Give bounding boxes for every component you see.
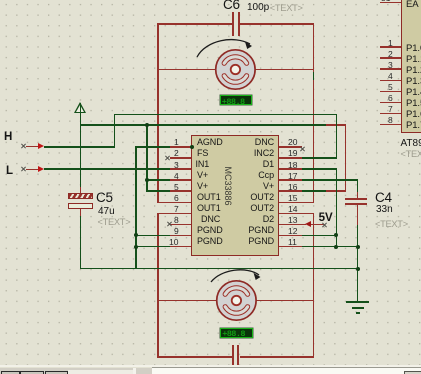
- bottom window UI strip: [0, 365, 421, 367]
- pin number 4: [174, 172, 179, 181]
- pin name V+ (5): [197, 182, 208, 191]
- node L: input terminal: [21, 167, 26, 172]
- U2 pin 8 stub (P1.7): [380, 124, 401, 126]
- U2 pin number 2: [388, 50, 393, 59]
- pin name PGND (10): [197, 237, 223, 246]
- pin name OUT2 (14): [248, 204, 274, 213]
- U2 pin number 7: [388, 105, 393, 114]
- pin number 3: [174, 161, 179, 170]
- wire: pin 17 Ccp: [302, 179, 358, 181]
- U2 pin number 31 (clipped): [381, 0, 390, 3]
- U1 pin 4 stub: [170, 179, 192, 181]
- U2 pin 7 stub (P1.6): [380, 113, 401, 115]
- wire: bottom loop bottom edge, right of C7: [240, 356, 314, 358]
- pin-end cross pin 8: [167, 221, 172, 226]
- value 33n: [376, 205, 393, 215]
- U1 pin 16 stub: [279, 190, 302, 192]
- U1 pin 19 stub: [279, 157, 302, 159]
- wire: H upper rail to pin 19 column: [114, 114, 338, 116]
- ground symbol: [346, 301, 369, 303]
- wire: into pin 19 INC2: [302, 157, 337, 159]
- motor M1: [193, 27, 278, 112]
- U2 pin number 6: [388, 94, 393, 103]
- wire: V+ branch to pin 5: [146, 190, 170, 192]
- wire: V+ branch to pin 4: [146, 179, 170, 181]
- wire: pin 15 OUT2 connection: [279, 202, 314, 204]
- U2 pin name P1.0: [406, 44, 421, 54]
- pin number 16: [288, 183, 297, 192]
- U2 pin 2 stub (P1.1): [380, 57, 401, 59]
- wire: H terminal to corner: [44, 146, 114, 148]
- wire: top motor loop top edge, left of C6: [157, 23, 232, 25]
- junction: pin 11 / C4 column: [356, 245, 360, 249]
- label C4: [375, 191, 392, 205]
- node H: input terminal: [21, 144, 26, 149]
- pin name D2: [254, 215, 274, 224]
- text placeholder C4: [375, 220, 408, 229]
- pin number 5: [174, 183, 179, 192]
- power terminal arrow (top left): [74, 102, 86, 113]
- pin name V+ (4): [197, 171, 208, 180]
- pin name D1: [254, 160, 274, 169]
- wire: motor M2 left terminal: [157, 300, 216, 302]
- capacitor C4: [357, 192, 359, 199]
- wire: pin 14 OUT2 connection: [279, 213, 314, 215]
- wire: motor M2 right terminal: [255, 300, 314, 302]
- U1 pin 2 stub: [170, 157, 192, 159]
- wire: +V rail red segment to pin16 column: [326, 124, 347, 126]
- U1 pin 20 stub: [279, 146, 302, 148]
- label L: [6, 166, 13, 178]
- wire: pin 19 column vertical: [336, 114, 338, 159]
- value 100p: [247, 3, 269, 13]
- wire: pin 6 OUT1 connection: [157, 202, 192, 204]
- pin name OUT2 (15): [248, 193, 274, 202]
- pin number 17: [288, 172, 297, 181]
- wire: pin 11 PGND to C4 column: [302, 246, 358, 248]
- wire: +V rail horizontal: [80, 124, 326, 126]
- wire: ground rail horizontal: [80, 268, 358, 270]
- label 5V: [319, 213, 333, 225]
- wire: V+ branch vertical: [146, 124, 148, 192]
- U1 pin 9 stub: [170, 235, 192, 237]
- U1 pin 1 stub: [170, 146, 192, 148]
- wire: pin 18 D1: [302, 168, 337, 170]
- label H: [4, 132, 12, 144]
- U2 pin number 4: [388, 72, 393, 81]
- wire: red vertical down to pin 16 row: [345, 124, 347, 192]
- pin name FS: [197, 149, 208, 158]
- pin name INC2: [250, 149, 274, 158]
- wire: Ccp down to C4: [357, 179, 359, 192]
- pin number 6: [174, 194, 179, 203]
- pin number 10: [169, 238, 178, 247]
- pin name IN1: [196, 160, 210, 169]
- pin number 11: [288, 238, 297, 247]
- U2 part label AT89C51: [401, 139, 421, 149]
- capacitor C7 (in bottom loop): [232, 345, 234, 368]
- pin number 1: [174, 138, 179, 147]
- wire: ground column vertical: [135, 146, 137, 269]
- wire: H vertical riser: [114, 114, 116, 148]
- U2 pin 3 stub (P1.2): [380, 68, 401, 70]
- junction: ground column pin 10: [134, 245, 138, 249]
- junction: pin 1 at chip edge: [190, 145, 194, 149]
- U2 text placeholder: [401, 150, 421, 159]
- pin name Ccp: [254, 171, 274, 180]
- U2 pin EA stub (pin 31): [380, 2, 401, 4]
- U2 pin 4 stub (P1.3): [380, 80, 401, 82]
- label C5: [96, 191, 113, 205]
- wire: bottom motor loop left edge (from pin 7): [157, 213, 159, 357]
- U1 pin 12 stub: [279, 235, 302, 237]
- text placeholder C5: [98, 218, 131, 227]
- U2 pin name P1.5: [406, 99, 421, 109]
- wire: pin 16 V+ red segment: [326, 190, 347, 192]
- U2 pin name P1.6: [406, 110, 421, 120]
- junction: D1 column pin 11: [334, 245, 338, 249]
- IC U1 vertical part name MC33886: [227, 185, 229, 187]
- U1 pin 13 stub: [279, 224, 302, 226]
- U1 pin 3 stub: [170, 168, 192, 170]
- pin name OUT1 (7): [197, 204, 221, 213]
- U2 pin number 5: [388, 83, 393, 92]
- U1 pin 11 stub: [279, 246, 302, 248]
- capacitor C5 (polarized): [80, 187, 82, 194]
- U2 pin 5 stub (P1.4): [380, 91, 401, 93]
- wire: ground column top corner to pin 1: [135, 146, 170, 148]
- junction: +V rail / V+ branch: [145, 123, 149, 127]
- wire: power terminal stem down to C5: [80, 103, 82, 187]
- pin-end cross pin 20: [300, 147, 305, 152]
- pin number 13: [288, 216, 297, 225]
- junction: D1 column pin 12: [334, 233, 338, 237]
- wire: L terminal to pin 3 IN1: [44, 168, 170, 170]
- wire: motor M1 left terminal: [157, 69, 216, 71]
- wire: pin 12 PGND: [302, 235, 337, 237]
- pin name PGND (9): [197, 226, 223, 235]
- U1 pin 18 stub: [279, 168, 302, 170]
- wire: C4 down to pin11 row and ground: [357, 225, 359, 302]
- label C6: [223, 0, 240, 11]
- wire: C5 down to ground rail: [80, 216, 82, 270]
- U2 pin number 8: [388, 116, 393, 125]
- pin number 15: [288, 194, 297, 203]
- motor M1 rotation arrow: [190, 30, 260, 62]
- wire: top motor loop right edge (to pin 15): [313, 23, 315, 203]
- junction: ground column pin 9: [134, 233, 138, 237]
- wire: ground column to pin 9: [135, 235, 170, 237]
- wire: bottom loop bottom edge, left of C7: [157, 356, 232, 358]
- junction: V+ branch pin 4: [145, 178, 149, 182]
- pin name PGND (11): [246, 237, 274, 246]
- pin number 8: [174, 216, 179, 225]
- U2 pin name P1.7: [406, 121, 421, 131]
- junction: ground rail end: [356, 267, 360, 271]
- pin number 14: [288, 205, 297, 214]
- motor M2: [194, 258, 279, 343]
- power terminal 5V at pin 13: [302, 224, 306, 226]
- motor M2 rotation arrow: [204, 262, 274, 294]
- U2 pin 6 stub (P1.5): [380, 102, 401, 104]
- pin number 18: [288, 161, 297, 170]
- U1 pin 17 stub: [279, 179, 302, 181]
- wire: pin 7 OUT1 connection: [157, 213, 192, 215]
- wire: ground column to pin 10: [135, 246, 170, 248]
- pin number 20: [288, 138, 297, 147]
- text placeholder C6: [270, 4, 303, 13]
- U2 pin name P1.2: [406, 66, 421, 76]
- IC U1 MC33886 body: [191, 135, 279, 256]
- motor M1 display +88.8: [220, 95, 252, 105]
- IC U2 AT89C51 body (clipped at right): [401, 0, 421, 133]
- U1 pin 8 stub: [170, 224, 192, 226]
- value 47u: [98, 207, 115, 217]
- U1 pin 5 stub: [170, 190, 192, 192]
- U2 pin name EA: [406, 0, 418, 9]
- pin name OUT1 (6): [197, 193, 221, 202]
- wire: top motor loop top edge, right of C6: [240, 23, 314, 25]
- wire: green probe segment on loop right edge: [313, 72, 315, 80]
- U2 pin number 3: [388, 61, 393, 70]
- U2 pin number 1: [388, 39, 393, 48]
- pin number 9: [174, 227, 179, 236]
- pin number 2: [174, 149, 179, 158]
- pin name AGND: [197, 138, 223, 147]
- wire: pin 16 V+ green segment: [302, 190, 326, 192]
- U2 pin name P1.1: [406, 55, 421, 65]
- pin name V+ (16): [254, 182, 274, 191]
- capacitor C6 (in top loop): [232, 12, 234, 36]
- U2 pin 1 stub (P1.0): [380, 46, 401, 48]
- U1 pin 10 stub: [170, 246, 192, 248]
- pin name DNC (8): [201, 215, 220, 224]
- motor M2 display +88.8: [220, 328, 253, 338]
- pin number 19: [288, 149, 297, 158]
- pin number 12: [288, 227, 297, 236]
- pin-end cross pin 2: [165, 155, 170, 160]
- pin name DNC (20): [254, 138, 274, 147]
- U2 pin name P1.3: [406, 77, 421, 87]
- pin number 7: [174, 205, 179, 214]
- wire: top motor loop left edge (to pin 6): [157, 23, 159, 203]
- wire: motor M1 right terminal: [255, 69, 314, 71]
- wire: D1 column down to pins 12/11: [336, 168, 338, 247]
- U2 pin name P1.4: [406, 88, 421, 98]
- wire: bottom motor loop right edge (from pin 14): [313, 213, 315, 357]
- pin name PGND (12): [246, 226, 274, 235]
